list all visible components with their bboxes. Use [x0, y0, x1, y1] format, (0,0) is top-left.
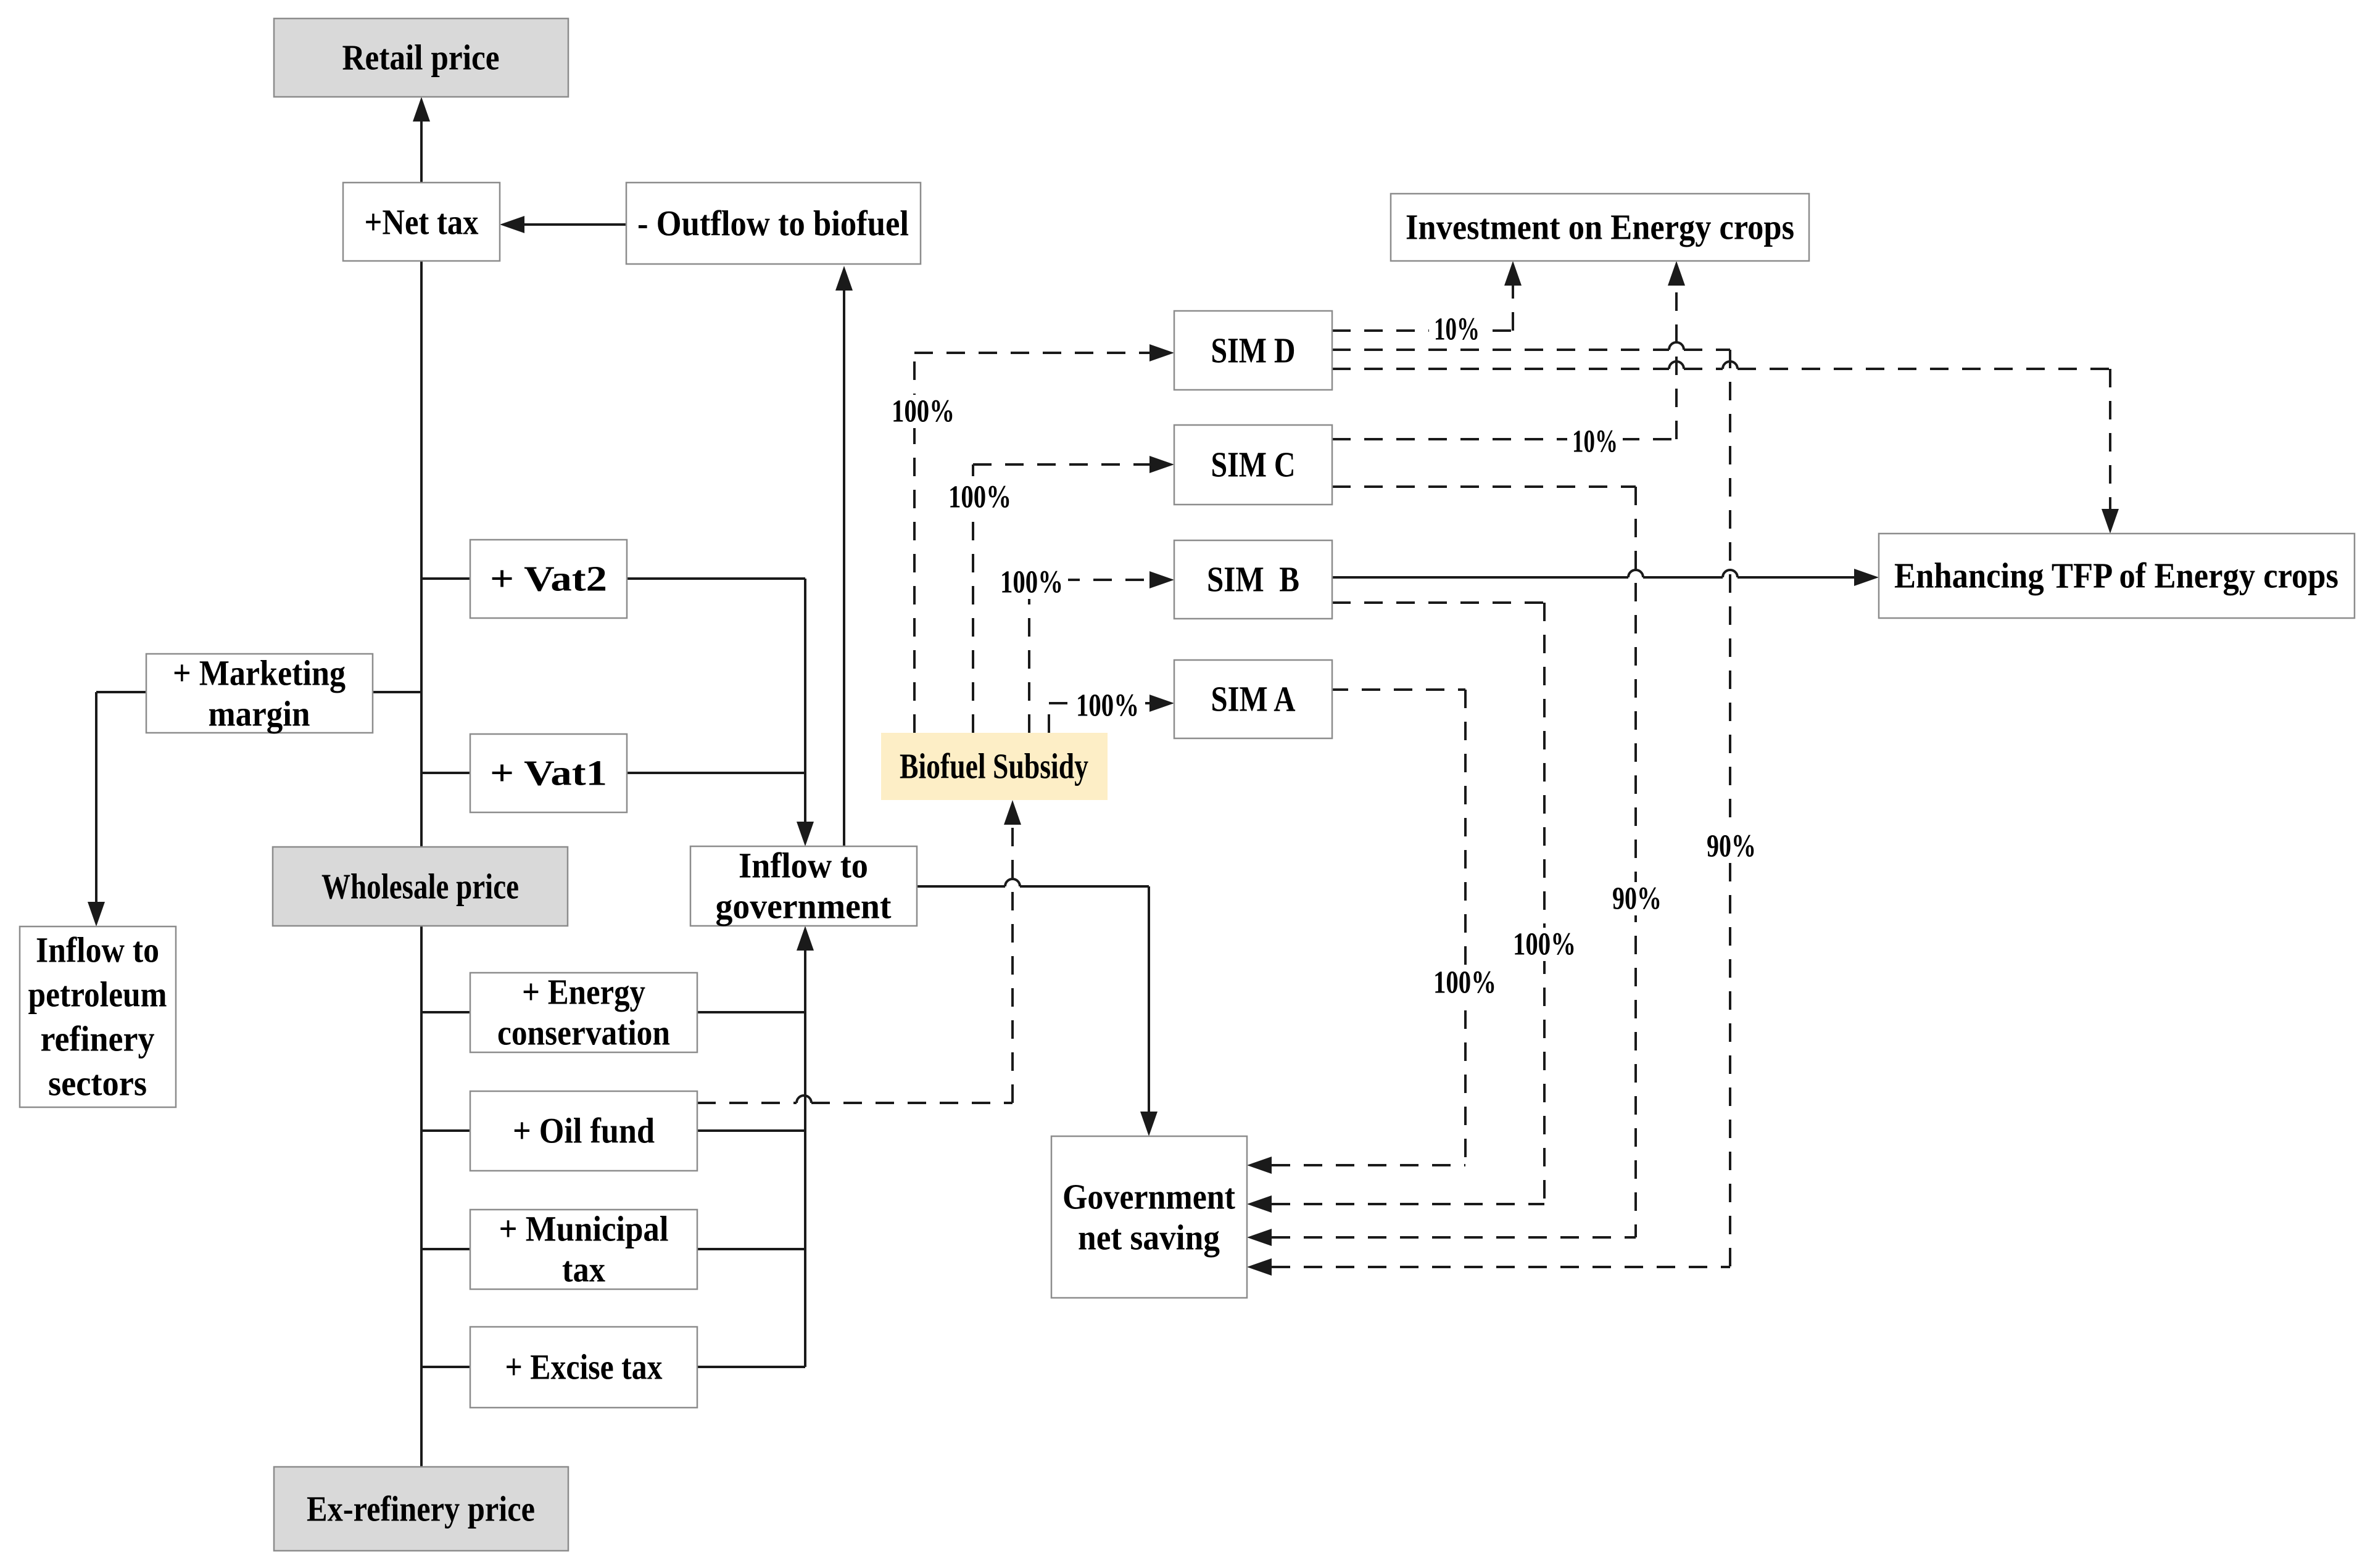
wire + Municipal tax left stub [421, 1248, 470, 1250]
wire Biofuel Subsidy to SIM B dashed arrow 100% [995, 565, 1174, 733]
node +Net tax [343, 183, 500, 261]
node + Excise tax [470, 1327, 697, 1408]
wire SIM C to Government net saving dashed arrow 90% [1247, 487, 1667, 1246]
wire +Vat2 left stub [421, 577, 470, 580]
svg-text:+ Oil fund: + Oil fund [513, 1111, 655, 1151]
wire tax collector up into Inflow to government [797, 926, 814, 1367]
wire Inflow to government up to - Outflow to biofuel arrow [835, 266, 853, 846]
svg-text:+ Vat1: + Vat1 [490, 753, 607, 793]
svg-text:- Outflow to biofuel: - Outflow to biofuel [637, 204, 909, 244]
node - Outflow to biofuel [626, 183, 921, 264]
svg-text:10%: 10% [1572, 424, 1618, 460]
svg-text:Government: Government [1062, 1177, 1236, 1217]
svg-text:petroleum: petroleum [28, 975, 167, 1015]
svg-text:90%: 90% [1612, 881, 1662, 917]
node + Vat2 [470, 540, 627, 618]
wire + Energy conservation right lead [697, 1011, 805, 1013]
wire Inflow to government to Government net saving arrow [917, 879, 1158, 1136]
svg-text:SIM A: SIM A [1211, 679, 1296, 719]
node Investment on Energy crops [1391, 194, 1809, 261]
wire SIM C to Investment dashed arrow 10% [1332, 261, 1685, 460]
wire +Vat2 right lead [627, 577, 805, 580]
node + Energy conservation [470, 972, 697, 1053]
node SIM A [1174, 660, 1332, 738]
wire + Marketing margin right stub [373, 691, 421, 693]
wire Biofuel Subsidy to SIM D dashed arrow 100% [887, 344, 1174, 733]
wire + Marketing margin to Inflow to petroleum arrow [88, 692, 146, 926]
svg-text:SIM D: SIM D [1211, 331, 1296, 371]
svg-text:sectors: sectors [48, 1063, 147, 1104]
wire SIM D to Government net saving dashed arrow 90% [1247, 342, 1761, 1276]
svg-text:government: government [716, 886, 892, 926]
svg-text:Enhancing TFP of Energy crops: Enhancing TFP of Energy crops [1894, 556, 2338, 596]
node Inflow to government [690, 846, 917, 926]
svg-text:margin: margin [209, 694, 310, 734]
node + Oil fund [470, 1091, 697, 1171]
node Biofuel Subsidy [881, 733, 1108, 800]
svg-text:+ Energy: + Energy [522, 972, 645, 1012]
svg-text:Wholesale price: Wholesale price [321, 867, 519, 907]
wire Vat collector down into Inflow to government [797, 579, 814, 846]
wire + Oil fund to Biofuel Subsidy dashed arrow [697, 800, 1021, 1103]
wire + Energy conservation left stub [421, 1011, 470, 1013]
svg-text:refinery: refinery [41, 1019, 155, 1059]
node Wholesale price [273, 847, 568, 926]
wire +Vat1 left stub [421, 772, 470, 774]
svg-text:Retail price: Retail price [342, 38, 500, 78]
svg-text:SIM B: SIM B [1207, 559, 1299, 600]
wire main price build-up vertical line [420, 183, 423, 1467]
svg-text:+ Municipal: + Municipal [499, 1209, 669, 1249]
wire +Net tax to Retail price arrow [413, 97, 430, 183]
node Retail price [274, 19, 568, 97]
svg-text:Ex-refinery price: Ex-refinery price [307, 1489, 535, 1529]
svg-text:Biofuel Subsidy: Biofuel Subsidy [900, 746, 1088, 786]
svg-text:100%: 100% [1513, 927, 1576, 962]
wire Biofuel Subsidy to SIM C dashed arrow 100% [943, 456, 1174, 733]
wire Biofuel Subsidy to SIM A dashed arrow 100% [1049, 688, 1174, 733]
node SIM D [1174, 311, 1332, 390]
wire +Vat1 right lead [627, 772, 805, 774]
svg-text:+ Marketing: + Marketing [173, 653, 346, 693]
svg-text:net saving: net saving [1078, 1218, 1220, 1258]
node Enhancing TFP of Energy crops [1879, 534, 2355, 618]
svg-text:Inflow to: Inflow to [739, 846, 868, 886]
wire - Outflow to biofuel to +Net tax arrow [500, 216, 626, 233]
wire + Oil fund left stub [421, 1129, 470, 1132]
svg-text:10%: 10% [1434, 312, 1480, 347]
wire + Municipal tax right lead [697, 1248, 805, 1250]
svg-text:SIM C: SIM C [1211, 445, 1296, 485]
svg-text:Inflow to: Inflow to [36, 930, 159, 970]
node SIM C [1174, 425, 1332, 505]
svg-text:100%: 100% [948, 480, 1011, 515]
svg-text:Investment on Energy crops: Investment on Energy crops [1406, 207, 1794, 247]
wire SIM B to Government net saving dashed arrow 100% [1247, 603, 1581, 1213]
svg-text:100%: 100% [1076, 688, 1139, 724]
svg-text:100%: 100% [892, 394, 955, 429]
node SIM B [1174, 540, 1332, 619]
wire SIM B to Enhancing TFP solid arrow [1332, 569, 1879, 586]
node Ex-refinery price [274, 1467, 568, 1551]
svg-text:conservation: conservation [497, 1013, 670, 1053]
svg-text:100%: 100% [1000, 565, 1063, 600]
svg-text:tax: tax [562, 1250, 605, 1290]
node + Vat1 [470, 734, 627, 812]
svg-text:100%: 100% [1433, 965, 1496, 1001]
svg-text:+ Vat2: + Vat2 [490, 559, 607, 599]
svg-text:90%: 90% [1707, 829, 1756, 864]
node Inflow to petroleum refinery sectors [20, 926, 176, 1107]
wire + Oil fund right lead [697, 1129, 805, 1132]
svg-text:+Net tax: +Net tax [365, 202, 479, 242]
wire + Excise tax right lead [697, 1366, 805, 1368]
wire + Excise tax left stub [421, 1366, 470, 1368]
wire SIM D to Investment dashed arrow 10% [1332, 261, 1522, 347]
wire SIM D to Enhancing TFP dashed arrow [1332, 361, 2119, 534]
wire SIM A to Government net saving dashed arrow 100% [1247, 690, 1501, 1174]
node Government net saving [1051, 1136, 1247, 1298]
node + Marketing margin [146, 653, 373, 734]
node + Municipal tax [470, 1209, 697, 1290]
svg-text:+ Excise tax: + Excise tax [505, 1347, 663, 1387]
